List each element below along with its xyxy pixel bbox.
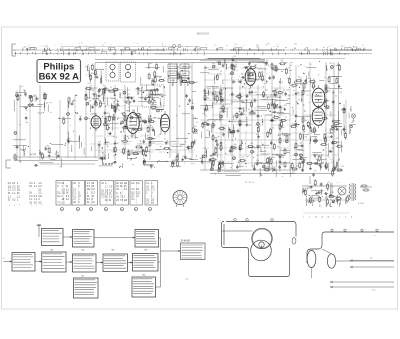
svg-text:man: man <box>372 290 376 292</box>
svg-text:47: 47 <box>310 183 312 185</box>
svg-text:0,1: 0,1 <box>102 85 104 87</box>
svg-text:0,1: 0,1 <box>110 87 112 89</box>
svg-text:R7: R7 <box>242 148 244 150</box>
svg-text:10k: 10k <box>138 113 141 115</box>
svg-text:R24: R24 <box>234 149 237 151</box>
svg-text:56k: 56k <box>325 198 328 200</box>
svg-text:0,1: 0,1 <box>113 102 115 104</box>
svg-text:C45: C45 <box>89 85 92 87</box>
svg-text:R12: R12 <box>256 134 259 136</box>
svg-text:C31: C31 <box>34 100 37 102</box>
svg-text:C31: C31 <box>219 73 222 75</box>
svg-text:23-46-89: 23-46-89 <box>181 241 191 243</box>
svg-text:R7: R7 <box>88 97 90 99</box>
svg-text:4: 4 <box>105 209 106 211</box>
svg-text:u: u <box>303 217 304 219</box>
svg-text:5p6: 5p6 <box>300 143 303 145</box>
svg-text:0,1: 0,1 <box>328 182 330 184</box>
svg-text:5p6: 5p6 <box>218 161 221 163</box>
svg-text:220: 220 <box>152 143 155 145</box>
svg-text:8p: 8p <box>39 150 41 152</box>
svg-text:8p: 8p <box>50 152 52 154</box>
svg-text:R7: R7 <box>43 93 45 95</box>
svg-text:4k7: 4k7 <box>140 84 143 86</box>
svg-text:10k: 10k <box>88 118 91 120</box>
svg-text:10k: 10k <box>331 148 334 150</box>
svg-text:C45: C45 <box>151 138 154 140</box>
svg-text:0,1: 0,1 <box>274 121 276 123</box>
svg-text:10k: 10k <box>321 154 324 156</box>
svg-text:47: 47 <box>214 125 216 127</box>
svg-text:C18: C18 <box>275 89 278 91</box>
svg-text:4: 4 <box>121 209 122 211</box>
svg-text:S1: S1 <box>85 46 87 48</box>
svg-text:C31: C31 <box>223 62 226 64</box>
svg-text:R24: R24 <box>250 143 253 145</box>
svg-text:0,05: 0,05 <box>212 165 215 167</box>
svg-text:o: o <box>41 205 42 207</box>
svg-text:0,1: 0,1 <box>215 160 217 162</box>
svg-text:C45: C45 <box>341 166 344 168</box>
svg-text:10k: 10k <box>315 159 318 161</box>
svg-text:4k7: 4k7 <box>345 198 348 200</box>
svg-text:SK1: SK1 <box>256 45 259 47</box>
svg-text:C31: C31 <box>117 109 120 111</box>
svg-text:C18: C18 <box>337 160 340 162</box>
svg-text:C45: C45 <box>272 157 275 159</box>
svg-text:R7: R7 <box>314 170 316 172</box>
svg-text:SK1: SK1 <box>235 44 238 46</box>
svg-text:C18: C18 <box>286 90 289 92</box>
svg-text:56k: 56k <box>305 136 308 138</box>
svg-text:R7: R7 <box>313 83 315 85</box>
svg-text:82p: 82p <box>89 100 92 102</box>
svg-text:xx: xx <box>374 235 376 237</box>
svg-text:47: 47 <box>288 68 290 70</box>
svg-text:4: 4 <box>149 209 150 211</box>
svg-text:S1: S1 <box>81 43 83 45</box>
svg-text:o: o <box>31 205 32 207</box>
svg-text:10k: 10k <box>194 126 197 128</box>
svg-text:R12: R12 <box>274 66 277 68</box>
svg-text:4k7: 4k7 <box>311 124 314 126</box>
svg-text:0,1: 0,1 <box>159 77 161 79</box>
svg-text:8p: 8p <box>253 152 255 154</box>
svg-text:C45: C45 <box>95 74 98 76</box>
svg-text:4k7: 4k7 <box>123 119 126 121</box>
svg-text:man: man <box>185 279 189 281</box>
svg-text:UCH81: UCH81 <box>90 114 96 116</box>
svg-text:0,1: 0,1 <box>222 89 224 91</box>
svg-text:8p: 8p <box>274 103 276 105</box>
svg-text:12: 12 <box>44 46 46 48</box>
svg-text:5p6: 5p6 <box>68 138 71 140</box>
svg-text:R12: R12 <box>284 105 287 107</box>
svg-text:o: o <box>14 205 15 207</box>
svg-text:5p6: 5p6 <box>282 127 285 129</box>
svg-text:S2: S2 <box>214 45 216 47</box>
svg-text:5p6: 5p6 <box>46 102 49 104</box>
svg-text:6.18.00: 6.18.00 <box>358 203 364 205</box>
svg-text:4: 4 <box>77 209 78 211</box>
svg-text:R12: R12 <box>301 162 304 164</box>
svg-text:5p6: 5p6 <box>258 126 261 128</box>
svg-text:C18: C18 <box>335 138 338 140</box>
svg-text:10k: 10k <box>147 146 150 148</box>
svg-text:C31: C31 <box>248 89 251 91</box>
svg-text:S1: S1 <box>162 44 164 46</box>
svg-text:8p: 8p <box>235 64 237 66</box>
svg-text:b: b <box>351 217 352 219</box>
svg-text:2M2: 2M2 <box>234 66 237 68</box>
svg-text:2M2: 2M2 <box>210 156 213 158</box>
svg-text:0,05: 0,05 <box>98 141 101 143</box>
svg-text:R7: R7 <box>242 157 244 159</box>
svg-text:tax a: tax a <box>191 162 195 165</box>
svg-text:S1: S1 <box>102 45 104 47</box>
svg-text:B6X92A: B6X92A <box>197 32 209 36</box>
svg-text:10k: 10k <box>211 162 214 164</box>
svg-text:1-· of ·o·: 1-· of ·o· <box>245 180 255 184</box>
svg-text:AOPA: AOPA <box>30 153 36 156</box>
svg-text:4: 4 <box>90 209 91 211</box>
svg-text:220: 220 <box>206 130 209 132</box>
svg-text:10k: 10k <box>272 128 275 130</box>
svg-text:47: 47 <box>270 103 272 105</box>
svg-text:4k7: 4k7 <box>305 120 308 122</box>
svg-text:2M2: 2M2 <box>56 152 59 154</box>
svg-text:8p: 8p <box>287 78 289 80</box>
svg-text:8p: 8p <box>241 74 243 76</box>
svg-text:C45: C45 <box>254 92 257 94</box>
svg-text:220: 220 <box>139 116 142 118</box>
svg-text:82p: 82p <box>256 160 259 162</box>
svg-text:0,1: 0,1 <box>204 122 206 124</box>
svg-text:cd: cd <box>327 217 329 219</box>
svg-text:R24: R24 <box>176 160 179 162</box>
svg-text:56k: 56k <box>213 94 216 96</box>
svg-text:82p: 82p <box>207 97 210 99</box>
svg-text:56k: 56k <box>234 144 237 146</box>
svg-text:0,1: 0,1 <box>298 93 300 95</box>
svg-text:56k: 56k <box>150 119 153 121</box>
svg-text:220: 220 <box>92 90 95 92</box>
svg-text:SK1: SK1 <box>294 44 297 46</box>
svg-text:SK1: SK1 <box>267 44 270 46</box>
svg-text:C45: C45 <box>331 192 334 194</box>
svg-text:2M2: 2M2 <box>267 167 270 169</box>
svg-text:220: 220 <box>98 100 101 102</box>
svg-text:0,05: 0,05 <box>280 60 283 62</box>
svg-text:82p: 82p <box>347 195 350 197</box>
svg-text:0,1: 0,1 <box>164 138 166 140</box>
svg-text:12: 12 <box>104 43 106 45</box>
svg-text:C31: C31 <box>79 116 82 118</box>
svg-text:C18: C18 <box>327 137 330 139</box>
svg-text:C45: C45 <box>329 63 332 65</box>
svg-text:R7: R7 <box>327 190 329 192</box>
svg-text:47: 47 <box>182 77 184 79</box>
svg-text:R12: R12 <box>296 166 299 168</box>
svg-text:0,1: 0,1 <box>147 125 149 127</box>
svg-text:47: 47 <box>310 165 312 167</box>
svg-text:47: 47 <box>285 117 287 119</box>
svg-text:12: 12 <box>362 45 364 47</box>
svg-text:cd: cd <box>321 217 323 219</box>
svg-text:C18: C18 <box>207 88 210 90</box>
svg-text:0,1: 0,1 <box>194 140 196 142</box>
svg-text:C45: C45 <box>233 56 236 58</box>
svg-text:56k: 56k <box>149 63 152 65</box>
svg-text:o: o <box>9 205 10 207</box>
svg-text:10k: 10k <box>239 93 242 95</box>
svg-text:cd: cd <box>315 217 317 219</box>
svg-text:47: 47 <box>299 154 301 156</box>
svg-text:C45: C45 <box>87 65 90 67</box>
svg-text:C31: C31 <box>214 147 217 149</box>
svg-text:C45: C45 <box>151 79 154 81</box>
svg-text:C31: C31 <box>280 164 283 166</box>
svg-text:R7: R7 <box>153 86 155 88</box>
svg-text:8p: 8p <box>200 158 202 160</box>
svg-text:4: 4 <box>135 209 136 211</box>
svg-text:0,05: 0,05 <box>191 143 194 145</box>
svg-text:B6X 92 A: B6X 92 A <box>39 71 80 82</box>
svg-text:82p: 82p <box>212 63 215 65</box>
svg-text:o: o <box>36 205 37 207</box>
svg-text:4k7: 4k7 <box>206 120 209 122</box>
svg-text:0,1: 0,1 <box>224 104 226 106</box>
svg-text:C45: C45 <box>281 157 284 159</box>
svg-text:e: e <box>339 217 340 219</box>
svg-text:C18: C18 <box>339 194 342 196</box>
svg-text:o: o <box>19 205 20 207</box>
svg-text:C45: C45 <box>307 78 310 80</box>
svg-text:R24: R24 <box>265 90 268 92</box>
svg-text:8p: 8p <box>254 113 256 115</box>
svg-text:C31: C31 <box>259 116 262 118</box>
svg-text:5p6: 5p6 <box>102 95 105 97</box>
svg-text:R12: R12 <box>95 69 98 71</box>
svg-text:C18: C18 <box>107 113 110 115</box>
svg-text:S1: S1 <box>341 46 343 48</box>
svg-text:4: 4 <box>61 209 62 211</box>
svg-text:C18: C18 <box>130 151 133 153</box>
svg-text:R24: R24 <box>292 124 295 126</box>
svg-text:C45: C45 <box>150 127 153 129</box>
svg-text:C45: C45 <box>221 166 224 168</box>
